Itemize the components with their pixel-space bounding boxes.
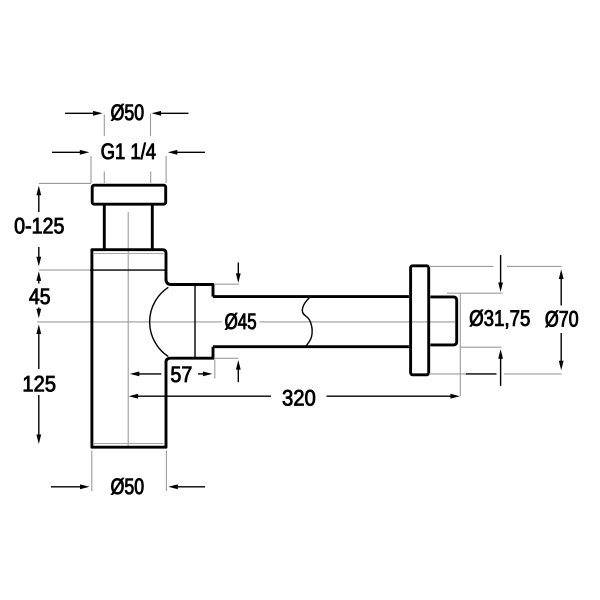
dim Ø45: top arrowhead (down) <box>236 273 241 283</box>
dim 125: top arrowhead (up) <box>36 325 41 335</box>
dim Ø70: label <box>546 310 578 327</box>
dim Ø45: label <box>225 313 256 330</box>
inlet pipe wall left <box>103 205 106 250</box>
dim 57: right arrowhead (points right) <box>203 372 213 377</box>
dim Ø50 bottom: right shaft <box>177 486 205 488</box>
dim Ø70: bottom ext dark segment <box>466 373 497 375</box>
dim Ø50 top: left arrowhead <box>93 111 103 116</box>
dim Ø70: top arrowhead (up) <box>559 270 564 280</box>
dim 45: top arrowhead (up) <box>36 271 41 281</box>
dim 320: left arrowhead (points left at centerline) <box>129 394 139 399</box>
dim 320: left shaft <box>138 395 271 397</box>
dim Ø50 top: left shaft <box>65 112 94 114</box>
dim 320: right shaft <box>327 395 452 397</box>
dim Ø50 bottom: label <box>111 478 143 495</box>
dim Ø45: bottom shaft <box>237 369 239 382</box>
dim G1 1/4: label <box>102 143 156 159</box>
body joint feature line <box>90 269 165 271</box>
dim 57: right ext line <box>214 360 216 379</box>
dim 0-125: top arrowhead (up) <box>36 186 41 196</box>
dim Ø50 bottom: ext lines <box>92 451 167 492</box>
dim Ø31,75: top arrowhead (down) <box>498 283 503 293</box>
dim Ø31,75: bottom shaft <box>500 358 502 386</box>
dim Ø50 top: ext lines <box>104 114 150 184</box>
body base inner faint line <box>93 443 164 445</box>
dim 45: bottom arrowhead (down) <box>36 309 41 319</box>
dim 125: label <box>24 376 55 392</box>
inlet pipe wall right <box>151 205 154 250</box>
dim 45: label <box>29 289 49 305</box>
dim Ø50 bottom: left arrowhead <box>80 484 90 489</box>
tube left section bottom edge <box>213 345 409 348</box>
dim Ø70: top shaft <box>560 279 562 306</box>
extension line body joint gray part <box>39 269 90 271</box>
dim Ø31,75: bottom arrowhead (up) <box>498 349 503 359</box>
trap body outline <box>92 250 166 448</box>
wall flange <box>411 266 429 375</box>
dim Ø45: bottom ext line <box>215 357 239 359</box>
dim Ø45: top ext line <box>215 283 239 285</box>
dim 57: right shaft <box>198 373 204 375</box>
tube right section with end cap <box>430 297 456 345</box>
dim 320: right arrowhead (points right) <box>450 394 460 399</box>
boss bottom edge <box>166 347 213 362</box>
dim Ø31,75: top shaft <box>500 255 502 283</box>
dim Ø31,75: top ext line <box>447 292 503 294</box>
dim Ø50 top: right arrowhead <box>152 111 162 116</box>
dim Ø45: top shaft <box>237 263 239 274</box>
dim 0-125: bottom shaft <box>38 247 40 257</box>
centerline vertical body axis <box>127 212 129 447</box>
dim Ø50 bottom: right arrowhead <box>168 484 178 489</box>
dim 125: bottom shaft <box>38 395 40 435</box>
dim G1 1/4: right arrowhead <box>168 150 178 155</box>
dim Ø31,75: bottom ext line <box>460 346 502 348</box>
dim 57: left shaft <box>139 373 162 375</box>
dim 57: left arrowhead (points left at centerline) <box>130 372 140 377</box>
dim Ø70: bottom shaft <box>560 333 562 362</box>
dim Ø50 top: right shaft <box>161 112 189 114</box>
dim Ø70: top ext line <box>429 265 562 267</box>
tube left section top edge <box>213 295 409 298</box>
dim G1 1/4: ext lines <box>91 156 166 183</box>
tailpiece flange <box>92 185 166 204</box>
dim 0-125: top shaft <box>38 195 40 212</box>
body lid inner faint line <box>93 253 164 255</box>
body-boss fillet arc <box>150 287 169 356</box>
dim 125: bottom arrowhead (down) <box>36 435 41 445</box>
dim Ø50 bottom: left shaft <box>51 486 81 488</box>
dim G1 1/4: left shaft <box>52 151 81 153</box>
dim 0-125: label <box>15 218 64 234</box>
dim Ø45: bottom arrowhead (up) <box>236 360 241 370</box>
dim Ø70: bottom arrowhead (down) <box>559 361 564 371</box>
dim G1 1/4: left arrowhead <box>80 150 90 155</box>
centerline horizontal tube axis <box>37 321 455 323</box>
dim 45: bottom shaft <box>38 308 40 310</box>
dim 320: right ext line <box>459 294 461 397</box>
dim 57: label <box>171 367 191 383</box>
extension line flange top (0-125 ref) <box>39 182 91 184</box>
nut face line <box>194 286 196 358</box>
dim Ø50 top: label <box>111 104 143 121</box>
dim Ø31,75: label <box>470 310 530 329</box>
dim 0-125: bottom arrowhead (down) <box>36 257 41 267</box>
dim G1 1/4: right shaft <box>177 151 205 153</box>
boss top edge <box>166 279 213 297</box>
break symbol S-curve <box>302 296 312 347</box>
dim 320: label <box>283 390 315 406</box>
dim 125: top shaft <box>38 334 40 370</box>
dim Ø70: bottom ext line <box>429 373 562 375</box>
dim 45: top shaft <box>38 280 40 283</box>
